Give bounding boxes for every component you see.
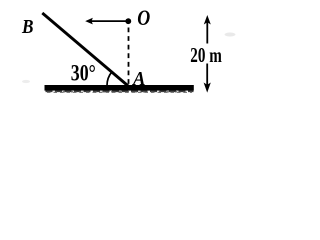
svg-text:B: B	[21, 16, 33, 38]
svg-text:30°: 30°	[71, 61, 96, 86]
svg-text:20 m: 20 m	[190, 43, 222, 67]
svg-text:O: O	[137, 5, 150, 30]
